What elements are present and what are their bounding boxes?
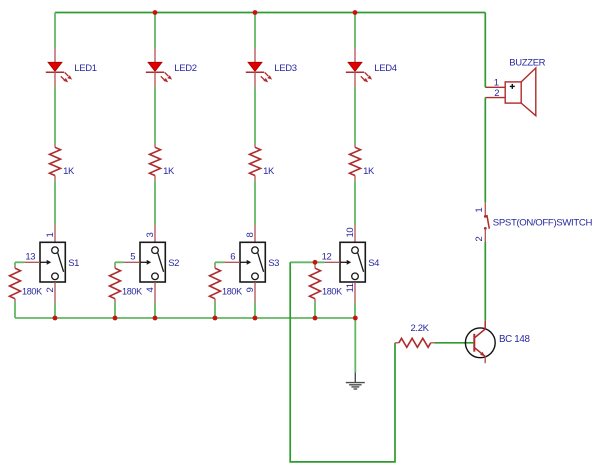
svg-text:9: 9 <box>245 288 256 293</box>
svg-text:180K: 180K <box>222 287 242 297</box>
LED LED2 (red LED symbol) <box>146 48 172 87</box>
wire 180K resistor to S3 pin 6 <box>215 261 224 263</box>
svg-text:1K: 1K <box>163 166 175 177</box>
wire LED4 cathode to resistor R4 <box>354 87 356 144</box>
svg-text:2: 2 <box>494 88 499 99</box>
transistor Q1 BC 148 (NPN) <box>465 321 495 363</box>
junction on bottom rail x=255 <box>253 316 258 321</box>
wire resistor 1K to switch S4 pin 10 <box>354 181 356 225</box>
wire SPST switch pin 2 to transistor collector <box>484 242 486 321</box>
svg-text:S3: S3 <box>268 258 279 269</box>
wire S2 pin 4 to bottom rail <box>154 303 156 319</box>
wire base loop (S4 pin 12 area down, across bottom, up to 2.2K) <box>290 262 395 462</box>
wire 180K resistor to S1 pin 13 <box>15 261 24 263</box>
resistor 1K (column 2) <box>150 144 161 181</box>
svg-text:5: 5 <box>130 252 135 263</box>
wire resistor 1K to switch S2 pin 3 <box>154 181 156 225</box>
junction on top rail at LED4 column <box>353 10 358 15</box>
pin 6 stub of S3 <box>224 261 240 263</box>
wire resistor 1K to switch S3 pin 8 <box>254 181 256 225</box>
pin 4 stub of S2 <box>154 282 156 303</box>
junction at S4 pin 12 / 180K <box>313 260 318 265</box>
wire 180K resistor to bottom rail (column 3) <box>214 302 216 318</box>
wire down to 180K resistor (column 3) <box>214 262 216 266</box>
LED LED4 (red LED symbol) <box>346 48 372 87</box>
switch S1 (pushbutton symbol) <box>40 242 65 282</box>
svg-text:BC 148: BC 148 <box>499 334 530 345</box>
pin 8 stub of S3 <box>254 225 256 242</box>
pin 11 stub of S4 <box>354 282 356 303</box>
svg-text:BUZZER: BUZZER <box>509 58 545 69</box>
wire rail to LED4 anode <box>354 13 356 49</box>
wire down to 180K resistor (column 4) <box>314 262 316 266</box>
switch S2 (pushbutton symbol) <box>140 242 165 282</box>
resistor 2.2K <box>395 338 434 347</box>
svg-text:13: 13 <box>25 252 35 263</box>
wire LED3 cathode to resistor R3 <box>254 87 256 144</box>
pin 5 stub of S2 <box>124 261 140 263</box>
wire top rail to buzzer pin 1 <box>484 13 486 88</box>
svg-text:10: 10 <box>345 228 356 238</box>
pin 3 stub of S2 <box>154 225 156 242</box>
svg-text:1: 1 <box>474 208 485 213</box>
wire top supply rail <box>55 12 485 14</box>
wire S4 pin 11 to bottom rail <box>354 303 356 319</box>
svg-text:4: 4 <box>145 288 156 293</box>
LED LED3 (red LED symbol) <box>246 48 272 87</box>
svg-text:1K: 1K <box>263 166 275 177</box>
junction on bottom rail x=115 <box>113 316 118 321</box>
wire S1 pin 2 to bottom rail <box>54 303 56 319</box>
svg-text:3: 3 <box>145 233 156 238</box>
svg-text:S2: S2 <box>168 258 179 269</box>
resistor 180K (column 4) <box>310 266 321 302</box>
svg-text:180K: 180K <box>122 287 142 297</box>
svg-text:LED2: LED2 <box>174 63 196 74</box>
wire down to 180K resistor (column 1) <box>14 262 16 266</box>
wire 2.2K to transistor base <box>434 342 473 344</box>
svg-text:2.2K: 2.2K <box>411 323 430 334</box>
pin 9 stub of S3 <box>254 282 256 303</box>
wire bottom rail to ground <box>354 318 356 372</box>
svg-text:1: 1 <box>45 233 56 238</box>
wire LED2 cathode to resistor R2 <box>154 87 156 144</box>
junction on bottom rail x=155 <box>153 316 158 321</box>
pin 2 stub of S1 <box>54 282 56 303</box>
wire rail to LED2 anode <box>154 13 156 49</box>
svg-text:LED3: LED3 <box>274 63 296 74</box>
wire from base-loop to S4 pin 12 <box>290 261 324 263</box>
junction on top rail at LED3 column <box>253 10 258 15</box>
resistor 1K (column 3) <box>250 144 261 181</box>
switch S3 (pushbutton symbol) <box>240 242 265 282</box>
wire bottom rail <box>15 317 355 319</box>
svg-text:180K: 180K <box>322 287 342 297</box>
junction on bottom rail x=215 <box>213 316 218 321</box>
resistor 180K (column 3) <box>210 266 221 302</box>
resistor 180K (column 1) <box>10 266 21 302</box>
pin 12 stub of S4 <box>324 261 340 263</box>
svg-text:1: 1 <box>494 78 499 89</box>
wire 180K resistor to S2 pin 5 <box>115 261 124 263</box>
junction on bottom rail x=315 <box>313 316 318 321</box>
svg-text:11: 11 <box>345 283 356 292</box>
wire rail to LED3 anode <box>254 13 256 49</box>
wire buzzer pin 2 to SPST switch pin 1 <box>484 98 486 203</box>
switch S4 (pushbutton symbol) <box>340 242 365 282</box>
pin 10 stub of S4 <box>354 225 356 242</box>
wire down to 180K resistor (column 2) <box>114 262 116 266</box>
resistor 1K (column 4) <box>350 144 361 181</box>
buzzer BUZZER (speaker symbol) <box>485 68 536 116</box>
pin 13 stub of S1 <box>24 261 40 263</box>
wire 180K resistor to bottom rail (column 1) <box>14 302 16 318</box>
switch SPST(ON/OFF)SWITCH <box>484 203 489 242</box>
svg-text:1K: 1K <box>363 166 375 177</box>
svg-text:S4: S4 <box>368 258 379 269</box>
wire 180K resistor to bottom rail (column 2) <box>114 302 116 318</box>
svg-text:12: 12 <box>322 252 332 263</box>
wire rail to LED1 anode <box>54 13 56 49</box>
svg-text:6: 6 <box>230 252 235 263</box>
resistor 180K (column 2) <box>110 266 121 302</box>
svg-text:180K: 180K <box>22 287 42 297</box>
svg-text:1K: 1K <box>63 166 75 177</box>
svg-text:LED1: LED1 <box>74 63 96 74</box>
svg-text:S1: S1 <box>68 258 79 269</box>
wire LED1 cathode to resistor R1 <box>54 87 56 144</box>
wire S3 pin 9 to bottom rail <box>254 303 256 319</box>
svg-text:2: 2 <box>45 288 56 293</box>
LED LED1 (red LED symbol) <box>46 48 72 87</box>
junction on bottom rail x=355.3 <box>353 316 358 321</box>
pin 1 stub of S1 <box>54 225 56 242</box>
svg-text:SPST(ON/OFF)SWITCH: SPST(ON/OFF)SWITCH <box>493 218 593 229</box>
ground symbol <box>346 372 365 389</box>
svg-text:8: 8 <box>245 233 256 238</box>
svg-text:2: 2 <box>474 237 485 242</box>
wire resistor 1K to switch S1 pin 1 <box>54 181 56 225</box>
svg-text:LED4: LED4 <box>374 63 396 74</box>
junction on bottom rail x=55 <box>53 316 58 321</box>
junction on top rail at LED2 column <box>153 10 158 15</box>
wire 180K resistor to bottom rail (column 4) <box>314 302 316 318</box>
resistor 1K (column 1) <box>50 144 61 181</box>
